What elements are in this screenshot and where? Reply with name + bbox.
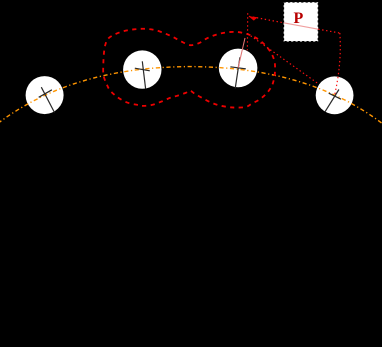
arrowhead at point A — [248, 16, 257, 20]
cross marker circle 2 — [135, 61, 150, 88]
pink trace segment inside box (line A-C over white) — [284, 23, 319, 29]
dotted line B to circle 4 center — [247, 34, 319, 85]
vertical dotted from A down to circle 3 rim — [246, 13, 248, 50]
svg-text:P: P — [294, 10, 304, 27]
dotted line C down to circle 4 center — [335, 33, 341, 95]
pink radius line into circle 3 center — [238, 38, 245, 68]
dotted line A to C (left of box) — [249, 16, 284, 23]
cross marker circle 1 — [39, 87, 55, 112]
red dashed envelope (peanut) — [103, 29, 275, 108]
label box for P (stamp style) — [284, 2, 319, 42]
rolling circle position 4 — [316, 76, 354, 114]
cross marker circle 4 — [325, 90, 341, 112]
base curve (orange dash-dot arc) — [0, 67, 382, 124]
cross marker circle 3 — [230, 57, 245, 88]
rolling circle position 3 — [219, 49, 258, 88]
rolling circle position 2 — [123, 50, 161, 88]
dotted line A to C (right of box) — [318, 29, 340, 33]
rolling circle position 1 — [26, 76, 64, 114]
